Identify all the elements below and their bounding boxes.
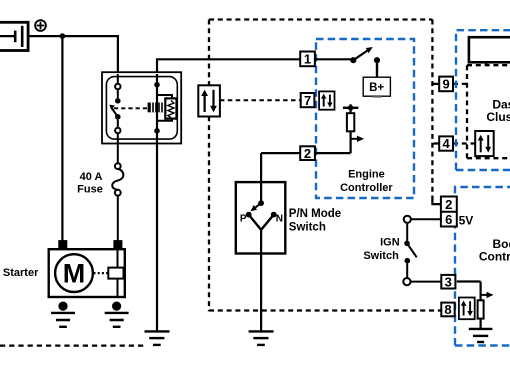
svg-text:Engine: Engine bbox=[348, 169, 385, 181]
svg-text:B+: B+ bbox=[369, 82, 384, 94]
svg-text:2: 2 bbox=[304, 146, 311, 161]
svg-text:Controller: Controller bbox=[479, 250, 510, 264]
svg-text:9: 9 bbox=[442, 77, 449, 92]
svg-text:P: P bbox=[240, 214, 247, 225]
svg-text:8: 8 bbox=[444, 302, 451, 317]
svg-text:Switch: Switch bbox=[289, 222, 326, 234]
svg-text:6: 6 bbox=[445, 212, 452, 227]
svg-text:7: 7 bbox=[304, 93, 311, 108]
svg-text:Controller: Controller bbox=[340, 182, 393, 194]
svg-text:Cluster: Cluster bbox=[486, 110, 510, 124]
svg-text:Starter: Starter bbox=[3, 267, 39, 279]
svg-text:Fuse: Fuse bbox=[77, 183, 103, 195]
svg-text:Switch: Switch bbox=[363, 250, 399, 262]
svg-text:40 A: 40 A bbox=[80, 171, 103, 183]
svg-text:4: 4 bbox=[442, 136, 450, 151]
svg-text:1: 1 bbox=[304, 52, 311, 67]
svg-text:5V: 5V bbox=[459, 213, 474, 227]
svg-text:2: 2 bbox=[445, 197, 452, 212]
svg-text:IGN: IGN bbox=[380, 237, 400, 249]
svg-text:N: N bbox=[276, 213, 283, 224]
svg-text:P/N Mode: P/N Mode bbox=[289, 208, 341, 220]
svg-text:M: M bbox=[63, 259, 86, 289]
svg-text:3: 3 bbox=[445, 274, 452, 289]
